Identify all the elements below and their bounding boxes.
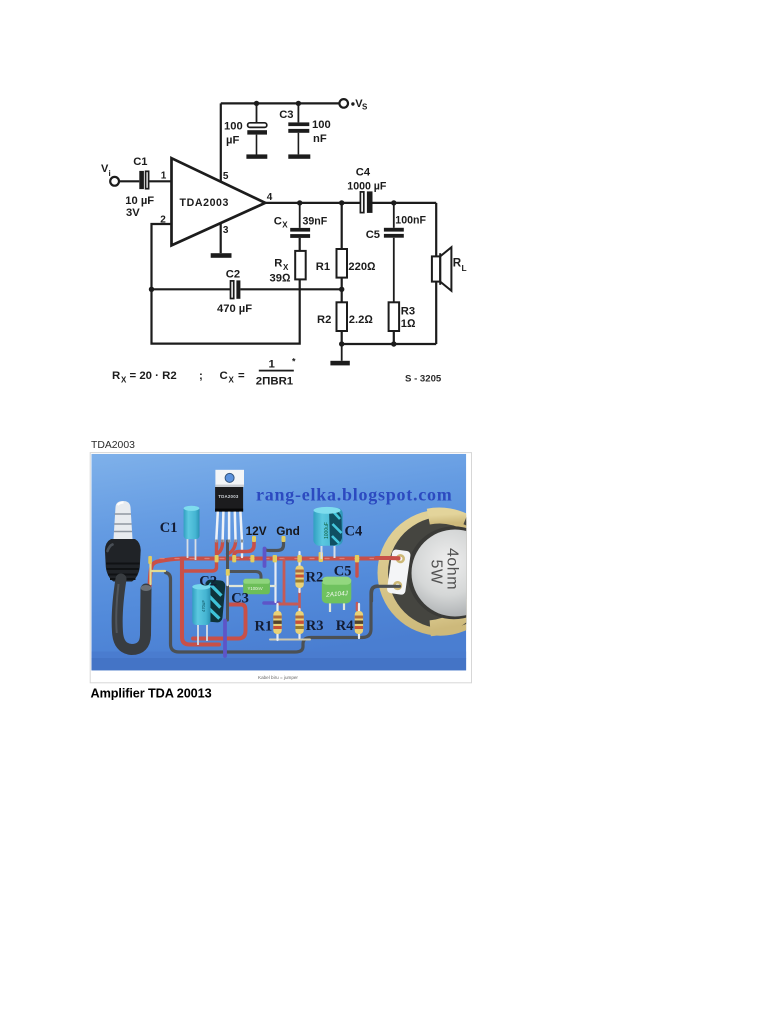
svg-text:R1: R1 [316, 261, 330, 273]
resistor R3 [295, 611, 303, 634]
svg-text:S: S [362, 103, 368, 112]
jack plug tip [114, 501, 133, 539]
svg-text:39Ω: 39Ω [270, 272, 291, 284]
svg-text:rang-elka.blogspot.com: rang-elka.blogspot.com [256, 485, 453, 505]
speaker dark basket [388, 517, 500, 629]
wire C4 to speaker branch [373, 202, 437, 204]
wire red elbow TDA pin2 [218, 541, 223, 554]
speaker terminal plate [387, 549, 411, 595]
speaker dome rim [407, 526, 500, 619]
wire violet jumper J1 [263, 549, 267, 567]
svg-text:12V: 12V [246, 524, 267, 538]
speaker tan tabs [428, 516, 499, 629]
svg-text:TDA2003: TDA2003 [91, 440, 135, 451]
svg-text:1: 1 [161, 171, 167, 182]
svg-text:4: 4 [267, 192, 273, 203]
svg-text:C4: C4 [356, 166, 371, 178]
wire white C5 column [274, 562, 276, 602]
speaker silver dome [412, 530, 499, 617]
wire red main rail [150, 558, 398, 588]
capacitor C4 1000uF (electrolytic output) [347, 166, 387, 213]
svg-text:R4: R4 [336, 618, 354, 634]
svg-text:Amplifier TDA 20013: Amplifier TDA 20013 [91, 687, 212, 701]
wire red R2 to R3 link [298, 590, 301, 609]
wire feedback rail left [152, 288, 231, 290]
resistor R1 220ohm [316, 203, 376, 289]
wire top supply rail [221, 102, 339, 104]
wire white R1 leads [276, 604, 278, 640]
wire gray Gnd elbow [265, 539, 284, 551]
svg-text:R3: R3 [401, 306, 415, 318]
svg-text:X: X [282, 220, 288, 229]
wire red mid column [283, 560, 286, 604]
ground symbol under R2 [341, 344, 343, 361]
ground 100uF [246, 154, 267, 158]
svg-text:1: 1 [269, 359, 276, 371]
wire white stub below center joint [226, 575, 228, 585]
capacitor C3 100nF [279, 103, 330, 154]
capacitor C4 cyan big [313, 507, 342, 559]
node pin2 C2 junction [149, 287, 154, 292]
capacitor C2 470uF [217, 269, 252, 315]
wire white TDA pin5 [241, 541, 243, 557]
op-amp U1 TDA2003 [172, 158, 266, 245]
svg-text:R: R [112, 370, 120, 382]
wire violet jumper J3 horizontal [264, 601, 279, 605]
formula Rx = 20 R2 [112, 357, 296, 388]
svg-text:Gnd: Gnd [276, 524, 300, 538]
capacitor 100uF supply (electrolytic) [224, 103, 267, 154]
svg-text:100nF: 100nF [395, 215, 426, 227]
capacitor C2 body [192, 579, 225, 645]
svg-text:5W: 5W [428, 560, 445, 585]
svg-text:10 µF: 10 µF [125, 195, 154, 207]
wire pin 2 [152, 224, 172, 289]
speaker outer tan ring [378, 510, 504, 636]
resistor R2 [295, 566, 303, 589]
svg-text:2.2Ω: 2.2Ω [349, 314, 374, 326]
svg-text:Y100nV: Y100nV [248, 586, 263, 591]
resistor R3 1ohm [389, 238, 416, 344]
resistor Rx 39ohm [270, 238, 306, 284]
node junction 100uF [254, 101, 259, 106]
svg-text:C3: C3 [279, 109, 293, 121]
ground C3 [288, 154, 310, 158]
svg-text:C5: C5 [366, 229, 380, 241]
wire speaker to ground rail [435, 282, 437, 344]
table front edge band [91, 652, 466, 659]
svg-text:C2: C2 [226, 269, 240, 281]
wire right branch to speaker [435, 203, 437, 256]
wire red elbow TDA pin4 [228, 541, 236, 554]
resistor R2 2.2ohm [317, 289, 373, 344]
svg-text:220Ω: 220Ω [348, 261, 376, 273]
node output Cx [297, 200, 302, 205]
node junction C3 [296, 101, 301, 106]
wire C1 to pin 1 [149, 180, 172, 182]
svg-text:C: C [220, 370, 228, 382]
svg-text:C: C [274, 215, 282, 227]
IC TDA2003 body [215, 487, 243, 512]
wire white R3 leads [298, 609, 300, 638]
terminal Vi input [110, 177, 119, 186]
wire white R2 leads [298, 552, 300, 592]
capacitor Cx 39nF [274, 203, 328, 238]
svg-text:100: 100 [312, 119, 331, 131]
svg-text:C4: C4 [345, 524, 363, 540]
wire yellow stub to gray hook [151, 570, 165, 572]
svg-text:Kabel biru = jumper: Kabel biru = jumper [258, 675, 298, 680]
wire red TDA pin1 drop [184, 541, 217, 571]
wire red loop under 12V [234, 538, 254, 556]
svg-text:TDA2003: TDA2003 [180, 197, 230, 209]
capacitor C1 cyan [184, 506, 200, 560]
svg-text:1000uF: 1000uF [324, 522, 330, 539]
svg-text:R2: R2 [306, 570, 324, 586]
wire gray over speaker flange [372, 586, 400, 601]
svg-text:C3: C3 [231, 591, 249, 607]
svg-text:=: = [238, 370, 245, 382]
capacitor C3 green [229, 579, 276, 594]
node R2 ground [339, 341, 344, 346]
wire Rx bottom loop to pin2 [152, 279, 300, 343]
wire white R4 leads [358, 604, 360, 638]
svg-text:R3: R3 [306, 618, 324, 634]
svg-text:nF: nF [313, 133, 327, 145]
svg-text:µF: µF [226, 135, 239, 147]
wire cream cable-end vertical [149, 557, 151, 584]
svg-text:L: L [462, 263, 467, 273]
svg-text:S - 3205: S - 3205 [405, 374, 442, 385]
wire feedback rail right [240, 288, 341, 290]
wire red rail over speaker flange [376, 556, 399, 560]
svg-text:C2: C2 [199, 574, 217, 590]
speaker basket top-right [466, 519, 499, 553]
svg-text:5: 5 [223, 171, 229, 182]
svg-text:i: i [109, 169, 111, 178]
svg-text:= 20 · R2: = 20 · R2 [130, 370, 177, 382]
svg-text:TDA2003: TDA2003 [218, 494, 239, 499]
photo background blue table [91, 454, 466, 671]
wire Vi to C1 [119, 180, 139, 182]
speaker label 4ohm 5W [428, 548, 461, 590]
svg-text:1000 µF: 1000 µF [347, 180, 387, 192]
node R1 R2 C2 [339, 287, 344, 292]
IC TDA2003 legs [216, 512, 242, 542]
jack plug body [105, 539, 141, 582]
wire red drop to R4 [355, 560, 358, 576]
svg-text:C1: C1 [160, 520, 178, 536]
capacitor C5 100nF [366, 203, 427, 241]
wire gray center from TDA pin3 [226, 541, 229, 620]
svg-text:100: 100 [224, 121, 243, 133]
svg-text:2ΠBR1: 2ΠBR1 [256, 376, 294, 388]
svg-text:1Ω: 1Ω [401, 318, 416, 330]
svg-text:X: X [229, 376, 235, 385]
IC TDA2003 tab [215, 470, 244, 487]
resistor R4 [355, 611, 363, 634]
node R3 ground [391, 341, 396, 346]
svg-text:470 µF: 470 µF [217, 303, 252, 315]
svg-text:C1: C1 [133, 156, 147, 168]
wire violet jumper J2 bottom [223, 621, 227, 657]
svg-text:C5: C5 [334, 564, 352, 580]
svg-text:X: X [283, 263, 289, 272]
svg-text:R: R [274, 258, 282, 270]
photo frame box [90, 453, 471, 683]
speaker RL [432, 247, 467, 291]
jack cable [117, 579, 146, 650]
wire gray speaker return bottom [166, 573, 401, 653]
node output R1 [339, 200, 344, 205]
svg-text:39nF: 39nF [303, 215, 328, 227]
ground pin 3 [211, 253, 232, 258]
capacitor C5 green block [322, 577, 352, 612]
svg-text:;: ; [199, 370, 203, 382]
wire cream R1 R3 bottom link [270, 639, 310, 641]
svg-text:3: 3 [223, 225, 229, 236]
terminal +Vs [339, 99, 348, 108]
solder joints yellow [148, 536, 359, 576]
wire ground rail [342, 343, 437, 345]
wire red left drop and bottom run [182, 561, 219, 645]
wire pin 3 to ground [220, 223, 222, 253]
svg-text:*: * [292, 357, 296, 367]
svg-text:R: R [453, 257, 462, 270]
wire output pin 4 [265, 202, 360, 204]
svg-text:X: X [121, 376, 127, 385]
resistor R1 [273, 611, 281, 634]
svg-text:R2: R2 [317, 314, 331, 326]
node C5 [391, 200, 396, 205]
svg-text:470uF: 470uF [201, 600, 206, 612]
capacitor C1 10uF 3V (electrolytic input) [125, 156, 154, 219]
svg-text:3V: 3V [126, 207, 140, 219]
wire pin 5 to rail [220, 103, 222, 181]
svg-text:R1: R1 [255, 619, 273, 635]
svg-text:4ohm: 4ohm [444, 548, 461, 590]
wire red C2 C3 row [193, 605, 246, 639]
